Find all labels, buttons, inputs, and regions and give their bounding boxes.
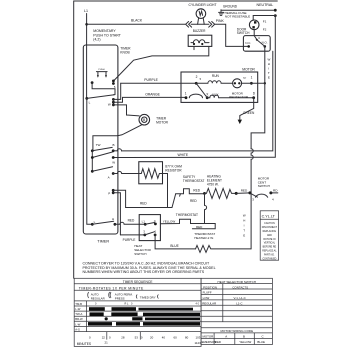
wire B exit to white1 [113,149,121,151]
svg-text:MINUTES: MINUTES [77,342,91,346]
svg-text:V-1, L1-C: V-1, L1-C [234,296,246,300]
svg-text:REGULAR: REGULAR [202,302,216,306]
svg-text:MOTOR WIRING CODE: MOTOR WIRING CODE [220,329,253,333]
svg-text:28: 28 [121,335,125,339]
node W stack [112,98,115,101]
svg-text:PINK: PINK [216,19,225,23]
blade L-W [87,95,114,99]
svg-text:H: H [243,219,245,223]
svg-text:NOT RESETABLE: NOT RESETABLE [225,14,250,18]
timer sequence table [74,278,201,346]
svg-text:4750 W.: 4750 W. [207,183,219,187]
svg-text:SWITCH: SWITCH [258,184,270,188]
svg-text:N.C.: N.C. [245,41,251,45]
svg-text:PRESS: PRESS [115,296,125,300]
row TM-B marks [95,303,200,306]
svg-text:KNOB: KNOB [120,50,130,54]
svg-text:TW-A: TW-A [75,312,82,316]
svg-text:RESISTOR: RESISTOR [165,168,182,172]
svg-text:E: E [243,234,245,238]
wire neutral vertical to W [113,16,275,158]
wire under lamp [191,23,209,25]
junction L1/black [85,23,88,26]
svg-text:RD: RD [273,188,278,192]
svg-text:21: 21 [105,341,109,345]
svg-text:4 0: 4 0 [196,303,200,306]
svg-text:RED: RED [140,202,147,206]
svg-text:80: 80 [185,335,189,339]
motor centrifugal arc [189,94,202,98]
timer contact L-H bottom [87,98,93,224]
svg-text:H: H [268,62,270,66]
svg-text:P: P [108,191,110,195]
svg-text:YELLOW: YELLOW [163,220,176,224]
wire to thermal fuse [253,16,275,21]
svg-text:1: 1 [185,92,187,96]
wire A to resistor [113,171,139,173]
svg-text:FLUFF: FLUFF [203,291,212,295]
svg-text:RED: RED [190,199,197,203]
svg-text:W: W [243,214,246,218]
svg-text:A: A [225,335,227,339]
svg-text:ORANGE: ORANGE [145,92,160,96]
svg-text:THERMOSTAT: THERMOSTAT [176,213,198,217]
svg-text:F2: F2 [263,27,267,31]
motor switch blade 2-X [196,83,207,97]
svg-text:T: T [268,71,270,75]
connector chevrons right [209,22,215,28]
svg-text:RUN: RUN [212,74,220,78]
svg-text:DISCONNECT: DISCONNECT [262,227,278,229]
svg-text:NEUTRAL: NEUTRAL [257,3,274,7]
svg-text:22: 22 [102,335,106,339]
svg-text:MOTOR: MOTOR [203,335,214,339]
door switch blade [257,40,265,46]
cylinder light note box [260,211,278,260]
row grid [74,306,201,332]
svg-text:SWITCH: SWITCH [237,31,250,35]
svg-text:GROUND: GROUND [223,4,238,8]
wire W to orange riser [113,97,122,102]
wire fuse to door switch [254,30,257,40]
wire W to purple riser [113,83,120,99]
svg-text:E: E [268,76,270,80]
svg-text:CONTACTS: CONTACTS [232,285,248,289]
wire buzzer to start switch [114,46,209,81]
svg-text:A-S: A-S [75,327,80,331]
node heating element right [235,192,238,195]
svg-text:CONNECT DRYER TO 120/240 V.A.C: CONNECT DRYER TO 120/240 V.A.C.,60 HZ. I… [83,261,210,265]
svg-text:W: W [112,161,115,165]
motor wiring code table [201,328,272,339]
svg-text:L1-C: L1-C [236,302,242,306]
timer contact A [91,170,94,173]
svg-text:B: B [113,143,115,147]
wire white bus from N.O. [251,46,265,148]
svg-text:20: 20 [150,335,154,339]
svg-text:NUMBERS WHEN WRITING ABOUT THI: NUMBERS WHEN WRITING ABOUT THIS DRYER OR… [83,270,205,274]
svg-text:PURPLE: PURPLE [123,238,136,242]
wire resistor to red line [163,174,168,208]
svg-text:WHITE: WHITE [178,153,189,157]
svg-text:PROTECTOR: PROTECTOR [229,95,249,99]
heat selector table [201,278,272,344]
svg-text:SWITCH: SWITCH [134,252,146,256]
wire W to timer motor riser [113,104,126,106]
svg-text:HEAT SELECTOR SWITCH: HEAT SELECTOR SWITCH [218,280,257,284]
svg-text:THERMOSTAT: THERMOSTAT [183,179,205,183]
svg-text:TIMER: TIMER [97,240,109,244]
svg-text:MOTOR: MOTOR [156,120,169,124]
svg-text:BLACK: BLACK [131,19,143,23]
svg-text:60: 60 [174,335,178,339]
svg-text:ROTATE IN: ROTATE IN [263,238,275,241]
minutes scale [107,332,141,340]
svg-text:CAUTION: CAUTION [264,222,275,225]
svg-text:RED: RED [215,340,221,344]
wire thermostat branch [192,193,215,228]
wire timer motor to timer box [93,125,142,151]
connector chevrons left [186,22,192,28]
wire start sw to W stack [92,83,115,95]
svg-text:'C': 'C' [243,76,247,80]
svg-text:L-W: L-W [75,307,80,311]
node heating element left [203,192,206,195]
svg-text:RED: RED [193,188,200,192]
svg-text:BLUE: BLUE [170,244,178,248]
svg-text:1123: 1123 [195,341,202,345]
wire L1 vertical [86,14,88,99]
svg-text:REPLACING: REPLACING [263,230,277,233]
svg-text:PURPLE: PURPLE [144,78,158,82]
svg-text:103: 103 [196,335,201,339]
svg-text:CONTINUED: CONTINUED [262,258,276,260]
svg-text:MOTOR: MOTOR [242,67,255,71]
timer contact L top [85,97,88,100]
svg-text:1: 1 [251,75,253,79]
svg-text:HEATER-2 W.: HEATER-2 W. [194,236,214,240]
svg-text:C: C [262,335,264,339]
svg-text:L-W: L-W [75,322,80,326]
svg-text:PART NO.: PART NO. [264,253,275,256]
svg-text:TW: TW [96,143,101,147]
svg-text:TIMER SEQUENCE: TIMER SEQUENCE [123,280,153,284]
svg-text:PUSH: PUSH [98,69,104,71]
timer contact P pair [112,189,115,192]
row labels [75,302,83,332]
svg-text:BLUE: BLUE [257,340,265,344]
svg-text:CYLINDER LIGHT: CYLINDER LIGHT [189,3,217,7]
svg-text:RED: RED [128,218,135,222]
timer rail TW [91,151,93,172]
wire P2 to purple drop [113,193,120,235]
svg-text:53: 53 [135,335,139,339]
heat selector switch S4 [139,215,160,241]
svg-text:H: H [112,217,114,221]
svg-text:A: A [108,176,110,180]
svg-text:F1: F1 [263,19,267,23]
timer chart bars [88,307,200,325]
svg-text:BUZZER: BUZZER [193,29,206,33]
svg-text:REPLACE AL: REPLACE AL [262,250,277,253]
svg-text:W: W [108,103,111,107]
svg-text:YELLOW: YELLOW [239,340,251,344]
svg-text:REGULAR: REGULAR [91,296,105,300]
wire timer motor feed [127,105,140,116]
svg-text:R L: R L [125,303,130,306]
timer contact W2 [112,156,115,159]
svg-text:POSITION: POSITION [203,285,217,289]
svg-text:T: T [243,229,245,233]
svg-text:L1: L1 [142,219,146,223]
svg-text:L1: L1 [84,9,88,13]
wire buzzer left stub [193,46,195,49]
svg-text:TIMER-ROTATES 1X PER MINUTE: TIMER-ROTATES 1X PER MINUTE [79,286,144,290]
svg-text:BR-W: BR-W [75,317,83,321]
svg-text:B: B [243,335,245,339]
svg-text:LOW: LOW [203,296,210,300]
svg-text:RED: RED [241,189,248,193]
wire white vertical 2 [122,51,273,151]
timer box [83,45,118,234]
ground green arrow [238,120,242,124]
svg-text:40: 40 [162,335,166,339]
svg-text:VERTICAL: VERTICAL [264,242,276,245]
wire P to red riser [113,190,125,207]
timer motor B1 [139,114,150,125]
svg-text:C.YL.LT: C.YL.LT [262,215,276,219]
svg-text:TIMED DRY: TIMED DRY [140,295,156,299]
svg-text:2: 2 [196,75,198,79]
svg-text:(4,2): (4,2) [93,38,100,42]
svg-text:C: C [258,36,260,40]
wire cent-switch riser with crossover humps [251,149,253,249]
svg-text:TM-B: TM-B [75,302,82,306]
connect note text [83,261,216,274]
svg-text:PROTECTED BY MAXIMUM 30 A. FUS: PROTECTED BY MAXIMUM 30 A. FUSES. ALWAYS… [83,266,216,270]
svg-text:BEFORE RE: BEFORE RE [263,247,277,249]
motor protector U2 [233,79,242,88]
svg-text:AND: AND [267,234,272,237]
svg-text:W: W [268,58,271,62]
svg-text:RED: RED [196,225,203,229]
junction neutral [274,9,277,12]
resistor R1 877 ohm [139,162,163,184]
